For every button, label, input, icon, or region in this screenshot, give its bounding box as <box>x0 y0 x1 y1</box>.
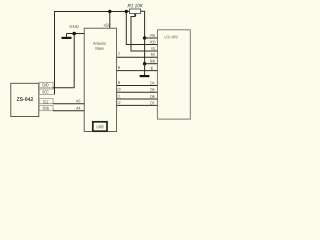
pin E label (LCD) <box>151 67 153 70</box>
pin VSS label (LCD) <box>150 34 155 37</box>
wire +5V to LCD VDD <box>126 12 157 45</box>
pin GND box (ZS-042) <box>39 82 53 88</box>
wire D7 (Arduino pin 12 to LCD D7) <box>117 104 158 106</box>
wire D5 (Arduino pin 10 to LCD D5) <box>117 91 158 93</box>
wire VSS to LCD <box>145 37 158 39</box>
pin VCC label (ZS-042) <box>42 90 48 93</box>
pin SDA label (ZS-042) <box>43 107 49 110</box>
USB connector box <box>93 122 107 131</box>
pin number 11 (Arduino) <box>117 95 120 98</box>
pin SCL box (ZS-042) <box>39 98 53 103</box>
ground bar (right) <box>140 75 150 77</box>
junction dot VSS <box>143 36 146 39</box>
pin SCL label (ZS-042) <box>43 100 48 103</box>
resistor R1 potentiometer body <box>130 9 141 14</box>
wire SDA (ZS-042 to Arduino A4) <box>53 110 84 112</box>
wire RW to LCD <box>145 63 158 65</box>
pin GND label (ZS-042) <box>42 83 48 86</box>
pin number 12 (Arduino) <box>117 101 120 104</box>
pin D7 label (LCD) <box>151 102 155 105</box>
wire R1 right terminal down to VSS net <box>141 11 145 38</box>
Arduino Nano label line 1 <box>93 42 106 45</box>
module ZS-042 label <box>17 97 33 101</box>
wire E (Arduino pin 8 to LCD E) <box>117 70 158 72</box>
ground stem (left) <box>66 34 68 37</box>
pin VDD label (LCD) <box>150 41 156 44</box>
LCD 1602 body <box>157 30 190 119</box>
pin number 8 (Arduino) <box>118 66 120 69</box>
node +5V label <box>103 24 110 27</box>
Arduino Nano U1 body <box>84 28 116 131</box>
USB label <box>97 125 104 128</box>
junction dot GND node <box>72 32 76 36</box>
wire +5V drop to Arduino top pin <box>109 12 111 29</box>
pin RW label (LCD) <box>150 60 155 63</box>
pin V0 label (LCD) <box>151 47 155 50</box>
R1 wiper contact blob <box>134 14 136 16</box>
pin D5 label (LCD) <box>151 88 155 91</box>
pin D4 label (LCD) <box>151 82 155 85</box>
pin SDA box (ZS-042) <box>39 105 53 110</box>
wire GND node to Arduino GND pin <box>67 33 85 35</box>
node A4 label <box>76 107 80 110</box>
wire ZS-042 GND row <box>53 87 74 89</box>
resistor R1 10K label <box>128 4 143 8</box>
module ZS-042 RTC body <box>11 83 39 116</box>
node A5 label <box>76 100 80 103</box>
ground GND label (left) <box>69 25 78 28</box>
ground bar (left) <box>62 37 72 39</box>
wire SCL (ZS-042 to Arduino A5) <box>53 103 84 105</box>
wire +5V rail (riser at x=54.5 and top rail y=11.5) <box>55 12 130 95</box>
wire GND node down to ZS-042 GND row <box>73 34 75 88</box>
pin RS label (LCD) <box>151 53 155 56</box>
junction dot rail/R1 left terminal <box>125 10 128 13</box>
pin VCC box (ZS-042) <box>39 89 54 94</box>
junction dot rail/+5V drop <box>108 10 111 13</box>
junction dot RW <box>143 62 146 65</box>
ground stem (right, below RW) <box>144 64 146 75</box>
pin number 7 (Arduino) <box>118 53 120 56</box>
pin number 10 (Arduino) <box>117 88 120 91</box>
Arduino Nano label line 2 <box>96 47 104 50</box>
wire VSS dot to RW dot <box>144 38 146 64</box>
LCD 1602 label <box>165 36 178 39</box>
wire D4 (Arduino pin 9 to LCD D4) <box>117 85 158 87</box>
wire RS (Arduino pin 7 to LCD RS) <box>117 56 158 58</box>
pin D6 label (LCD) <box>151 95 155 98</box>
pin number 9 (Arduino) <box>118 81 120 84</box>
wire R1 wiper to LCD V0 <box>131 14 157 51</box>
wire D6 (Arduino pin 11 to LCD D6) <box>117 98 158 100</box>
